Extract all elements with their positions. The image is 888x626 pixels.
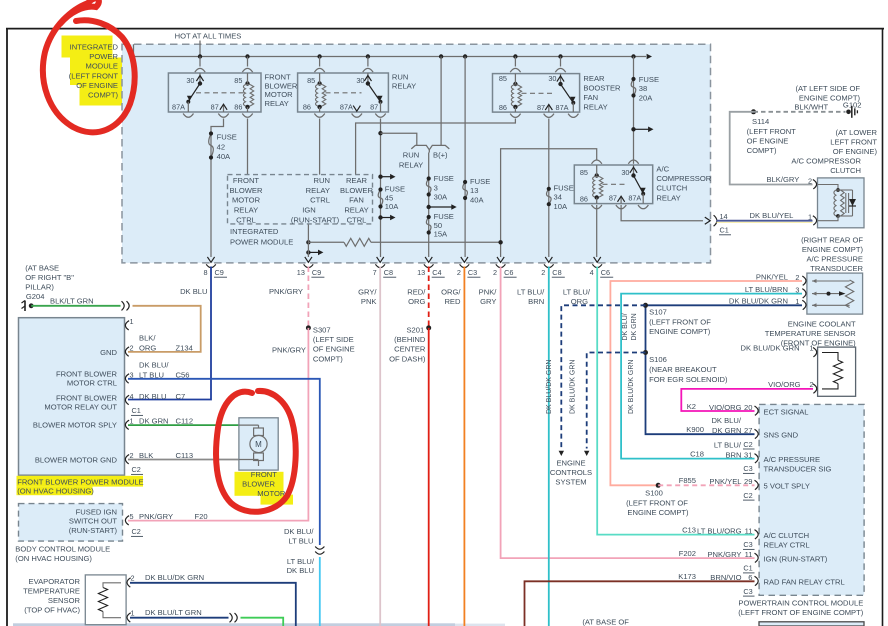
- svg-text:LT BLU/: LT BLU/: [287, 557, 315, 566]
- svg-text:M: M: [255, 440, 262, 449]
- svg-text:SENSOR: SENSOR: [48, 596, 81, 605]
- PCM pin 11 PNK/GRY: [679, 549, 828, 573]
- FBPM pin 3 front blower motor ctrl: [56, 361, 189, 388]
- FBMR dashed actuation line: [196, 92, 245, 94]
- fuse FUSE 3 30A: [426, 174, 453, 201]
- junction dots on bus: [198, 54, 636, 58]
- svg-text:BRN: BRN: [725, 450, 741, 459]
- svg-text:INTEGRATED: INTEGRATED: [230, 227, 279, 236]
- svg-text:RUN: RUN: [392, 73, 408, 82]
- svg-text:OF ENGINE: OF ENGINE: [747, 137, 789, 146]
- svg-text:F20: F20: [195, 512, 208, 521]
- svg-text:MODULE: MODULE: [86, 62, 119, 71]
- wire DK BLU/DK GRN dashed from S106 to engine controls: [584, 353, 646, 457]
- svg-text:(ON HVAC HOUSING): (ON HVAC HOUSING): [15, 554, 92, 563]
- svg-text:TRANSDUCER: TRANSDUCER: [810, 264, 863, 273]
- label FRONT BLOWER MOTOR: [242, 470, 286, 498]
- wire PNK/GRY from C6-2 to PCM IGN pin: [501, 267, 755, 559]
- wire DK BLU/DK GRN from transducer through S107 S106 to PCM pin 27: [646, 305, 803, 434]
- note text: INTEGRATED POWER MODULE (LEFT FRONT OF ENGINE COMPT): [69, 43, 119, 100]
- svg-text:(LEFT SIDE: (LEFT SIDE: [313, 335, 354, 344]
- svg-text:87A: 87A: [556, 103, 569, 112]
- wire: FBMR 86 to relay ctrl label box: [247, 119, 249, 175]
- wire: AC relay 86 to exit C6-4: [596, 205, 598, 257]
- RUN relay pin 30 switch to 87: [364, 73, 382, 112]
- note at lower left front of engine: [830, 128, 877, 156]
- labels RUN RELAY / B(+): [399, 151, 448, 170]
- svg-text:C9: C9: [312, 268, 321, 277]
- svg-text:BRN/VIO: BRN/VIO: [710, 573, 741, 582]
- svg-text:38: 38: [639, 84, 647, 93]
- svg-text:C9: C9: [215, 268, 224, 277]
- svg-text:C8: C8: [552, 268, 561, 277]
- svg-text:S307: S307: [313, 326, 331, 335]
- svg-text:FAN: FAN: [349, 196, 364, 205]
- wire DK GRN blower motor supply: [128, 424, 239, 426]
- wire ORG/RED from C3-2 to page bottom: [463, 267, 465, 626]
- svg-text:INTEGRATED: INTEGRATED: [70, 43, 119, 52]
- svg-text:85: 85: [580, 168, 588, 177]
- EVAPORATOR TEMPERATURE SENSOR box: [85, 575, 126, 625]
- svg-text:DK BLU/: DK BLU/: [711, 416, 741, 425]
- svg-text:ORG/: ORG/: [441, 288, 461, 297]
- svg-text:C2: C2: [132, 465, 141, 474]
- svg-text:20A: 20A: [639, 93, 653, 102]
- REAR relay pin 87 stub: [545, 105, 552, 113]
- svg-text:DK BLU/: DK BLU/: [622, 313, 629, 340]
- svg-text:DK BLU/: DK BLU/: [139, 361, 169, 370]
- svg-text:40A: 40A: [470, 195, 484, 204]
- connector arcs below REAR relay pins: [510, 114, 578, 118]
- svg-text:POWER MODULE: POWER MODULE: [230, 237, 293, 246]
- svg-text:FUSE: FUSE: [434, 174, 454, 183]
- wire: bus through FUSE 38 to AC relay 30: [633, 57, 635, 164]
- svg-text:C2: C2: [743, 491, 752, 500]
- transducer pin 2 PNK/YEL: [756, 272, 806, 285]
- label POWERTRAIN CONTROL MODULE (LEFT FRONT OF ENGINE COMPT): [738, 598, 863, 617]
- note ENGINE COOLANT TEMPERATURE SENSOR (FRONT OF ENGINE): [765, 319, 857, 347]
- svg-text:FUSE: FUSE: [554, 184, 574, 193]
- splice S201: [389, 325, 431, 363]
- svg-text:2: 2: [808, 177, 812, 186]
- wire BRN/VIO from page bottom to PCM rad fan pin: [525, 581, 755, 626]
- svg-text:C13: C13: [682, 525, 696, 534]
- labels LT BLU/DK BLU: [287, 557, 315, 575]
- svg-text:42: 42: [217, 142, 225, 151]
- svg-text:(LEFT FRONT OF ENGINE COMPT): (LEFT FRONT OF ENGINE COMPT): [738, 608, 863, 617]
- wire: RUN 86 to relay ctrl label box: [319, 119, 321, 175]
- svg-text:FUSE: FUSE: [217, 133, 237, 142]
- RUN relay coil 85-86: [316, 73, 326, 112]
- svg-text:VIO/ORG: VIO/ORG: [709, 403, 742, 412]
- A/C PRESSURE TRANSDUCER box: [807, 273, 863, 314]
- label A/C COMPRESSOR CLUTCH: [791, 156, 861, 175]
- svg-text:5 VOLT SPLY: 5 VOLT SPLY: [764, 482, 810, 491]
- svg-text:RUN: RUN: [314, 176, 330, 185]
- svg-text:BODY CONTROL MODULE: BODY CONTROL MODULE: [15, 545, 110, 554]
- svg-text:1: 1: [808, 213, 812, 222]
- wire: FBMR 87 to FUSE 42 to exit C9-8: [211, 119, 224, 258]
- transducer pin 1 DK BLU/DK GRN: [729, 296, 806, 309]
- svg-text:DK BLU/DK GRN: DK BLU/DK GRN: [145, 573, 204, 582]
- FBPM pin 4 front blower motor relay out: [44, 392, 185, 416]
- svg-text:FUSE: FUSE: [470, 177, 490, 186]
- svg-text:30: 30: [356, 76, 364, 85]
- svg-text:C2: C2: [132, 527, 141, 536]
- svg-text:DK BLU/DK GRN: DK BLU/DK GRN: [570, 360, 577, 414]
- transducer internals potentiometer: [812, 279, 854, 308]
- wire: AC relay 85 elbow down to exit C6-2: [501, 149, 597, 257]
- svg-text:4: 4: [590, 268, 594, 277]
- connector arcs below AC relay pins: [592, 205, 649, 209]
- fuse FUSE 38 20A: [631, 75, 659, 102]
- AC relay coil 85-86: [593, 165, 603, 204]
- wire: B+ drop to bracket: [440, 57, 442, 146]
- red annotation circle around INTEGRATED POWER MODULE note: [43, 0, 135, 132]
- svg-text:30: 30: [548, 74, 556, 83]
- BCM pin 5 fused ign switch out: [125, 512, 207, 536]
- AC relay pin 87 stub: [618, 196, 625, 203]
- svg-text:85: 85: [499, 74, 507, 83]
- svg-text:EVAPORATOR: EVAPORATOR: [29, 577, 81, 586]
- svg-text:TRANSDUCER SIG: TRANSDUCER SIG: [764, 464, 832, 473]
- svg-text:OF RIGHT "B": OF RIGHT "B": [25, 273, 74, 282]
- svg-text:(LEFT FRONT: (LEFT FRONT: [69, 71, 119, 80]
- A/C COMPRESSOR CLUTCH box: [818, 178, 865, 228]
- svg-text:85: 85: [307, 76, 315, 85]
- svg-text:PNK/GRY: PNK/GRY: [272, 346, 306, 355]
- svg-text:ECT SIGNAL: ECT SIGNAL: [764, 407, 809, 416]
- svg-text:DK GRN: DK GRN: [631, 313, 638, 340]
- svg-text:(RUN-START): (RUN-START): [69, 526, 118, 535]
- svg-text:86: 86: [580, 194, 588, 203]
- svg-text:87: 87: [370, 102, 378, 111]
- fuse FUSE 50 15A: [426, 212, 453, 238]
- svg-text:S114: S114: [752, 117, 769, 126]
- svg-text:B(+): B(+): [433, 151, 448, 160]
- svg-text:BLOWER MOTOR SPLY: BLOWER MOTOR SPLY: [33, 421, 117, 430]
- fuse FUSE 45 10A: [378, 185, 405, 212]
- text column RUN RELAY CTRL IGN RUN-START: [291, 176, 340, 224]
- wire DK BLU/DK GRN from evap pin 2: [130, 583, 296, 626]
- relay: A/C COMPRESSOR CLUTCH RELAY box: [574, 165, 652, 204]
- svg-text:87A: 87A: [628, 193, 641, 202]
- wire: label box to exit C9-13: [307, 224, 309, 257]
- REAR relay pin labels: [499, 74, 569, 112]
- ground G102: [843, 100, 862, 118]
- svg-text:A/C PRESSURE: A/C PRESSURE: [806, 255, 863, 264]
- svg-text:(AT BASE OF: (AT BASE OF: [582, 618, 629, 626]
- svg-text:POWERTRAIN CONTROL MODULE: POWERTRAIN CONTROL MODULE: [738, 598, 863, 607]
- connector arcs below FBMR pins: [183, 114, 253, 118]
- svg-text:1: 1: [131, 608, 135, 617]
- svg-text:13: 13: [470, 186, 478, 195]
- svg-text:87: 87: [211, 102, 219, 111]
- svg-text:OF ENGINE: OF ENGINE: [313, 345, 355, 354]
- FBPM pin 1 stub: [125, 317, 133, 330]
- label A/C COMPRESSOR CLUTCH RELAY: [656, 164, 711, 202]
- svg-text:(TOP OF HVAC): (TOP OF HVAC): [24, 606, 80, 615]
- svg-text:MOTOR: MOTOR: [265, 90, 294, 99]
- svg-text:COMPT): COMPT): [313, 354, 343, 363]
- svg-text:GND: GND: [100, 348, 117, 357]
- RUN relay pin 87A stub: [353, 106, 360, 112]
- wire: bracket to fuses 3/50 to exit C4-13: [428, 153, 430, 258]
- svg-text:RELAY: RELAY: [234, 206, 258, 215]
- IPM exit connector C6 pin 4: [590, 257, 614, 277]
- svg-text:RELAY: RELAY: [344, 206, 368, 215]
- note right rear of engine compt / A/C PRESSURE TRANSDUCER: [801, 235, 863, 273]
- svg-text:(AT LEFT SIDE OF: (AT LEFT SIDE OF: [795, 84, 860, 93]
- svg-text:(LEFT FRONT OF: (LEFT FRONT OF: [649, 317, 711, 326]
- FRONT BLOWER MOTOR box: [239, 418, 278, 470]
- svg-text:IGN (RUN-START): IGN (RUN-START): [764, 554, 828, 563]
- svg-text:20: 20: [744, 403, 752, 412]
- svg-text:6: 6: [748, 573, 752, 582]
- wire: REAR 87 through FUSE 34 to exit C8-2: [548, 119, 550, 258]
- svg-text:C6: C6: [601, 268, 610, 277]
- label ORG/RED: [441, 288, 461, 307]
- label INTEGRATED POWER MODULE: [230, 227, 293, 246]
- svg-text:TEMPERATURE: TEMPERATURE: [23, 587, 80, 596]
- svg-text:DK BLU/: DK BLU/: [284, 527, 314, 536]
- FBMR internals: pin 30 switch to 87A: [186, 73, 203, 112]
- svg-text:87: 87: [609, 193, 617, 202]
- svg-text:PNK/GRY: PNK/GRY: [269, 287, 303, 296]
- ENGINE COOLANT TEMPERATURE SENSOR box: [818, 347, 856, 396]
- svg-text:DK BLU/LT GRN: DK BLU/LT GRN: [145, 608, 202, 617]
- PCM pin 29 PNK/YEL: [709, 477, 810, 500]
- yellow highlight FRONT BLOWER MOTOR: [235, 472, 294, 505]
- svg-text:ENGINE: ENGINE: [556, 459, 585, 468]
- svg-text:LT BLU/: LT BLU/: [563, 288, 591, 297]
- svg-text:10A: 10A: [554, 202, 568, 211]
- svg-text:(RIGHT REAR OF: (RIGHT REAR OF: [801, 235, 863, 244]
- svg-text:C3: C3: [743, 587, 752, 596]
- relay: FRONT BLOWER MOTOR RELAY box: [168, 73, 261, 112]
- svg-text:PNK: PNK: [361, 297, 377, 306]
- AC relay connector arcs above pins: [592, 160, 639, 164]
- label BODY CONTROL MODULE (ON HVAC HOUSING): [15, 545, 110, 563]
- label LT BLU/ORG column: [563, 288, 591, 307]
- svg-text:DK BLU/YEL: DK BLU/YEL: [750, 211, 794, 220]
- IPM exit connector C3 pin 2: [457, 257, 481, 277]
- wire DK BLU from C9-8 to blower power module pin 4: [128, 267, 211, 400]
- svg-text:RELAY: RELAY: [656, 193, 680, 202]
- wire PNK/YEL from transducer to S100: [610, 281, 802, 485]
- evap pin 1: [127, 608, 202, 622]
- REAR relay dashed actuation line: [522, 92, 555, 94]
- svg-text:PNK/: PNK/: [479, 288, 498, 297]
- tap dot-arrows on RUN 87 line: [378, 174, 395, 220]
- svg-text:FRONT: FRONT: [265, 73, 292, 82]
- svg-text:OF ENGINE: OF ENGINE: [76, 81, 118, 90]
- svg-text:RELAY CTRL: RELAY CTRL: [764, 540, 810, 549]
- wire: bus through FUSE 13 to exit C3-2: [464, 57, 466, 258]
- FBMR coil 85-86: [243, 73, 253, 112]
- svg-text:BOOSTER: BOOSTER: [583, 84, 621, 93]
- svg-text:RED: RED: [444, 297, 461, 306]
- red annotation circle around FRONT BLOWER MOTOR: [216, 391, 296, 512]
- PCM pin 11 LT BLU/ORG: [682, 525, 810, 549]
- yellow highlight: INTEGRATED POWER MODULE note: [62, 36, 124, 106]
- label PNK/GRY column: [479, 288, 498, 307]
- svg-text:4: 4: [130, 392, 134, 401]
- svg-text:K900: K900: [686, 425, 704, 434]
- svg-text:A/C CLUTCH: A/C CLUTCH: [764, 531, 810, 540]
- svg-text:OF DASH): OF DASH): [389, 354, 426, 363]
- svg-text:S106: S106: [649, 355, 667, 364]
- svg-text:A/C COMPRESSOR: A/C COMPRESSOR: [791, 156, 861, 165]
- note S114 left front of engine compt: [747, 127, 797, 155]
- svg-text:REAR: REAR: [346, 176, 368, 185]
- svg-text:FRONT: FRONT: [251, 470, 278, 479]
- IPM exit connector C6 pin 2: [493, 257, 517, 277]
- IPM C1 right-side exit pin 14: [705, 212, 731, 235]
- svg-text:50: 50: [434, 221, 442, 230]
- svg-text:LT BLU/BRN: LT BLU/BRN: [745, 285, 788, 294]
- AC relay pin labels: [580, 168, 642, 204]
- svg-text:(AT BASE: (AT BASE: [25, 263, 59, 272]
- svg-text:C3: C3: [468, 268, 477, 277]
- bottom clipped module box right: [759, 622, 864, 626]
- svg-text:FRONT BLOWER: FRONT BLOWER: [56, 369, 118, 378]
- svg-text:86: 86: [499, 103, 507, 112]
- inline connector on evap pin 1 wire: [230, 613, 238, 622]
- wire RED/ORG dashed from C4-13 to splice S201: [428, 267, 430, 328]
- ECT sensor resistor: [822, 353, 843, 389]
- svg-text:MOTOR CTRL: MOTOR CTRL: [67, 378, 117, 387]
- tap dot-arrow below FUSE 38: [631, 127, 635, 131]
- svg-text:FUSE: FUSE: [434, 212, 454, 221]
- ground G204 symbol: [22, 301, 34, 312]
- svg-text:(LEFT FRONT OF: (LEFT FRONT OF: [626, 498, 688, 507]
- wire LT BLU/ORG from C6-4 to PCM A/C clutch pin: [597, 267, 754, 535]
- note at base of right B pillar: [25, 263, 74, 301]
- svg-text:CTRL: CTRL: [236, 215, 256, 224]
- svg-text:S107: S107: [649, 307, 667, 316]
- svg-text:45: 45: [385, 193, 393, 202]
- svg-text:RAD FAN RELAY CTRL: RAD FAN RELAY CTRL: [764, 578, 845, 587]
- wire BLK blower motor ground: [128, 459, 239, 461]
- label REAR BOOSTER FAN RELAY: [583, 74, 621, 112]
- svg-text:(NEAR BREAKOUT: (NEAR BREAKOUT: [649, 365, 717, 374]
- svg-text:DK BLU: DK BLU: [180, 287, 207, 296]
- svg-text:(RUN-START): (RUN-START): [291, 215, 340, 224]
- inline connector on motor control wire: [315, 547, 324, 555]
- svg-text:13: 13: [297, 268, 305, 277]
- tap dot-arrow on IGN line: [306, 250, 310, 254]
- label LT BLU/BRN column: [517, 288, 545, 307]
- wire DK BLU/DK GRN dashed from S107 to engine controls: [559, 305, 646, 456]
- label ENGINE CONTROLS SYSTEM: [550, 459, 592, 487]
- RUN relay dashed actuation line: [326, 92, 362, 94]
- svg-text:K2: K2: [687, 402, 696, 411]
- svg-text:(LEFT FRONT: (LEFT FRONT: [747, 127, 797, 136]
- transducer pin 3 LT BLU/BRN: [745, 285, 806, 298]
- svg-text:K173: K173: [678, 572, 696, 581]
- tap dot-arrow between fuse 3 and 50: [427, 205, 431, 209]
- svg-text:RELAY: RELAY: [306, 186, 330, 195]
- svg-text:MOTOR RELAY OUT: MOTOR RELAY OUT: [44, 403, 117, 412]
- svg-text:DK BLU/DK GRN: DK BLU/DK GRN: [546, 360, 553, 414]
- svg-text:8: 8: [203, 268, 207, 277]
- label FRONT BLOWER MOTOR RELAY: [265, 73, 298, 108]
- splice S100 and dashed PNK/YEL to PCM pin 29: [626, 476, 754, 517]
- PCM pin 20 VIO/ORG: [687, 402, 809, 417]
- svg-text:13: 13: [417, 268, 425, 277]
- svg-text:CENTER: CENTER: [394, 345, 426, 354]
- evap pin 2: [127, 573, 204, 587]
- bracket symbols RUN RELAY and B(+): [411, 145, 449, 152]
- wire: feeds into top bus: [134, 41, 201, 57]
- svg-text:CLUTCH: CLUTCH: [830, 166, 861, 175]
- FBPM pin 1 blower motor sply: [33, 417, 193, 430]
- splice S106: [643, 350, 728, 384]
- svg-text:FOR EGR SOLENOID): FOR EGR SOLENOID): [649, 375, 728, 384]
- svg-text:30A: 30A: [434, 192, 448, 201]
- svg-text:3: 3: [434, 183, 438, 192]
- AC relay dashed actuation line: [603, 183, 629, 185]
- svg-text:FRONT BLOWER: FRONT BLOWER: [56, 394, 118, 403]
- svg-text:MOTOR: MOTOR: [257, 489, 286, 498]
- ECT pin 1: [741, 344, 817, 357]
- svg-text:ENGINE COMPT): ENGINE COMPT): [649, 327, 711, 336]
- svg-text:DK BLU/DK GRN: DK BLU/DK GRN: [729, 296, 788, 305]
- splice S307: [306, 325, 355, 363]
- PCM pin 31 BRN: [690, 440, 831, 473]
- svg-text:POWER: POWER: [89, 52, 118, 61]
- IPM exit connector C9 pin 8: [203, 257, 227, 277]
- svg-text:MOTOR: MOTOR: [232, 196, 261, 205]
- svg-text:C3: C3: [743, 464, 752, 473]
- svg-text:DK BLU: DK BLU: [139, 392, 166, 401]
- PCM pin 27 DK GRN: [686, 416, 798, 449]
- svg-text:C1: C1: [132, 406, 141, 415]
- svg-text:RELAY: RELAY: [392, 81, 416, 90]
- svg-text:11: 11: [745, 550, 753, 559]
- bottom clipped module band left: [13, 623, 505, 626]
- svg-text:87A: 87A: [172, 102, 185, 111]
- svg-text:ENGINE COMPT): ENGINE COMPT): [802, 245, 864, 254]
- svg-text:A/C: A/C: [656, 164, 669, 173]
- svg-text:FAN: FAN: [583, 93, 598, 102]
- label FRONT BLOWER POWER MODULE (ON HVAC HOUSING): [17, 477, 143, 495]
- svg-text:ORG: ORG: [139, 343, 156, 352]
- svg-text:GRY/: GRY/: [358, 288, 377, 297]
- svg-text:BLK/: BLK/: [139, 334, 156, 343]
- svg-text:RED/: RED/: [407, 288, 426, 297]
- svg-text:SWITCH OUT: SWITCH OUT: [69, 517, 117, 526]
- wire DK BLU/LT BLU motor control to splice: [128, 379, 320, 545]
- inline connector on BLK/LT GRN: [122, 301, 130, 310]
- svg-text:LT BLU/ORG: LT BLU/ORG: [697, 526, 742, 535]
- note at left side of engine compt: [795, 84, 860, 103]
- wire VIO/ORG from ECT pin 2 to PCM pin 20: [681, 389, 813, 411]
- svg-text:F855: F855: [679, 476, 696, 485]
- svg-text:C1: C1: [720, 226, 729, 235]
- svg-text:GRY: GRY: [480, 297, 496, 306]
- labels DK BLU/LT BLU: [284, 527, 314, 545]
- svg-text:FUSED IGN: FUSED IGN: [76, 507, 117, 516]
- IPM exit connector C4 pin 13: [417, 257, 445, 277]
- svg-text:PNK/GRY: PNK/GRY: [139, 512, 173, 521]
- svg-text:2: 2: [810, 380, 814, 389]
- svg-text:27: 27: [744, 426, 752, 435]
- svg-text:C8: C8: [384, 268, 393, 277]
- svg-text:FRONT: FRONT: [233, 176, 260, 185]
- fuse FUSE 13 40A: [463, 177, 490, 204]
